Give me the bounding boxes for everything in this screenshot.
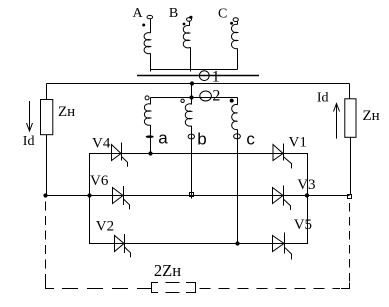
junction bridge right edge / middle rail — [305, 193, 309, 197]
label c — [246, 129, 255, 148]
thyristor V6 — [113, 186, 130, 209]
svg-text:B: B — [169, 6, 178, 21]
svg-text:V4: V4 — [92, 136, 111, 152]
label V5 — [294, 217, 312, 233]
wire top bus to right load — [349, 84, 351, 99]
dashed bottom bus left part — [62, 288, 152, 290]
terminal B — [187, 16, 193, 22]
resistor Zн left — [41, 100, 53, 135]
label 2Zн — [154, 261, 181, 280]
primary star bus — [151, 69, 238, 71]
label V6 — [90, 173, 109, 189]
node circle 2 — [200, 91, 212, 101]
svg-text:A: A — [133, 6, 144, 21]
label Id right — [317, 90, 329, 105]
terminal C — [233, 18, 238, 22]
label b — [197, 130, 206, 149]
node circle 1 — [199, 71, 209, 81]
polarity circle a — [145, 96, 149, 100]
current arrow Id right (up) — [334, 104, 340, 139]
junction on top wire — [190, 81, 194, 85]
thyristor V1 — [273, 144, 292, 169]
wire B winding to primary star bus — [190, 48, 191, 72]
wire C winding to primary star bus — [237, 49, 239, 70]
resistor Zн right — [345, 99, 356, 138]
svg-text:2: 2 — [212, 88, 220, 105]
wire A terminal to winding — [150, 19, 152, 33]
thyristor V2 — [115, 234, 131, 257]
svg-text:2Zн: 2Zн — [154, 261, 181, 280]
polarity circle b — [181, 99, 184, 102]
load 2Zн dashed box — [152, 283, 196, 293]
terminal a — [146, 135, 154, 138]
primary winding C — [231, 24, 237, 48]
dashed corner bottom left — [46, 283, 55, 289]
svg-text:Zн: Zн — [58, 104, 75, 120]
svg-text:b: b — [197, 130, 206, 149]
wire c to bridge bottom rail — [237, 130, 239, 244]
label Zн left — [58, 104, 75, 120]
node label 1 — [212, 68, 220, 85]
thyristor V5 — [273, 233, 292, 260]
terminal A — [147, 15, 153, 18]
svg-text:Id: Id — [23, 134, 35, 149]
svg-text:a: a — [158, 129, 168, 148]
label Id left — [23, 134, 35, 149]
svg-text:V3: V3 — [297, 177, 315, 193]
label V4 — [92, 136, 111, 152]
wire C terminal to winding — [237, 22, 239, 25]
polarity dot c — [230, 99, 234, 103]
bridge middle rail — [46, 195, 350, 197]
svg-text:C: C — [218, 7, 227, 22]
top horizontal wire (zero-sequence bus) — [47, 83, 350, 85]
phase label C — [218, 7, 227, 22]
wire a to bridge — [150, 125, 152, 154]
primary winding A — [144, 33, 150, 54]
label Zн right — [363, 108, 380, 124]
dashed wire left down — [45, 202, 47, 284]
thyristor V3 — [273, 186, 291, 210]
connection square b — [190, 193, 194, 197]
svg-text:V5: V5 — [294, 217, 312, 233]
svg-text:V2: V2 — [96, 218, 114, 234]
polarity dot B — [183, 23, 186, 26]
junction c on bottom rail — [235, 241, 239, 245]
dashed corner bottom right — [341, 283, 350, 289]
label V3 — [297, 177, 315, 193]
phase label B — [169, 6, 178, 21]
secondary star bus — [151, 97, 238, 99]
thyristor V4 — [112, 143, 128, 167]
dashed bottom bus right part — [200, 288, 341, 290]
node label 2 — [212, 88, 220, 105]
wire B terminal to winding — [189, 21, 191, 26]
wire b to bridge middle rail — [191, 126, 193, 199]
label a — [158, 129, 168, 148]
junction a on top rail — [148, 151, 152, 155]
label V1 — [289, 134, 307, 150]
terminal b — [188, 134, 194, 139]
dashed wire right down — [349, 203, 351, 283]
wire top bus to left load — [46, 84, 48, 100]
svg-text:c: c — [246, 129, 255, 148]
polarity dot A — [142, 24, 145, 27]
connection square right load — [348, 195, 352, 199]
svg-text:V6: V6 — [90, 173, 109, 189]
wire right load to middle rail — [350, 137, 352, 194]
svg-text:V1: V1 — [289, 134, 307, 150]
primary winding B — [183, 25, 189, 47]
phase label A — [133, 6, 144, 21]
junction left load / middle rail — [43, 193, 47, 197]
wire left load to middle rail — [46, 135, 48, 196]
bridge outline — [90, 154, 308, 244]
svg-text:Id: Id — [317, 90, 329, 105]
label V2 — [96, 218, 114, 234]
junction bridge left edge / middle rail — [87, 193, 91, 197]
wire drop to secondary star bus — [191, 84, 193, 98]
current arrow Id left (down) — [27, 101, 33, 131]
polarity dot C — [230, 22, 233, 25]
terminal c — [234, 134, 241, 139]
junction on secondary star bus — [189, 95, 193, 99]
wire A winding to primary star bus — [150, 53, 152, 71]
transformer core — [137, 75, 259, 77]
secondary winding b — [185, 98, 191, 127]
secondary winding a — [144, 98, 150, 126]
secondary winding c — [232, 98, 238, 130]
svg-text:Zн: Zн — [363, 108, 380, 124]
svg-text:1: 1 — [212, 68, 220, 85]
